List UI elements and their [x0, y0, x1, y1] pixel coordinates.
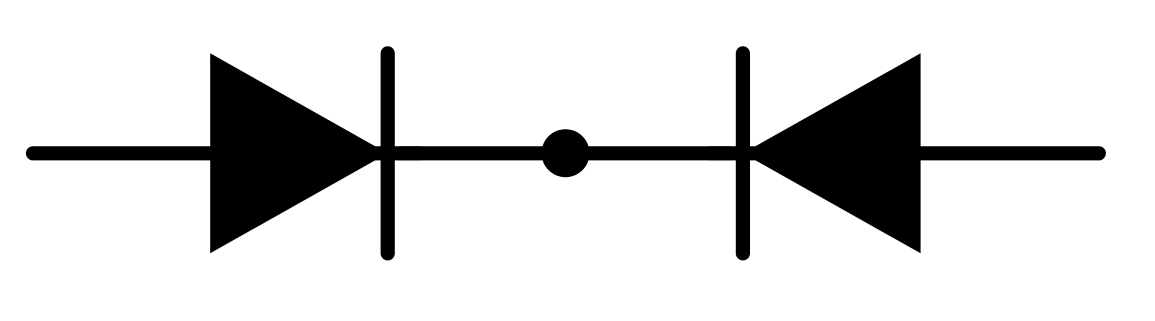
diode D2 triangle (anode right)	[743, 53, 921, 253]
diode D2 cathode bar	[736, 53, 750, 253]
wire right lead	[710, 146, 1099, 160]
wire segment node-to-bar	[566, 146, 731, 160]
diode D1 cathode bar	[381, 53, 395, 253]
wire left lead	[33, 146, 420, 160]
wire segment bar-to-node	[400, 146, 566, 160]
node junction dot	[542, 129, 590, 177]
diode D1 triangle (anode left)	[210, 53, 388, 253]
